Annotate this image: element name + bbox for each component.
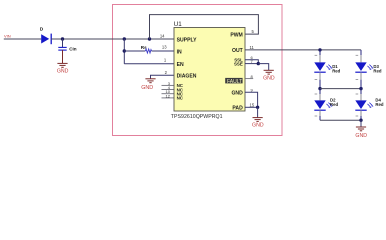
svg-text:OUT: OUT [232,48,244,54]
node junction left LED string [318,48,321,51]
svg-text:DIAGEN: DIAGEN [177,74,197,80]
node junction mid rung left [318,87,321,90]
svg-text:EN: EN [177,62,184,68]
svg-text:GND: GND [252,122,264,128]
wire left string top [319,50,321,55]
wire VIN to diode [4,38,41,40]
svg-text:SSE: SSE [234,62,243,67]
pin mark [315,93,318,95]
LED D2 [314,98,338,111]
schematic boundary box [113,5,283,136]
node junction SSL/SSE [257,62,260,65]
wire Rs to IN pin [152,50,174,52]
pin mark [356,54,359,56]
wire GND pin down [245,92,258,107]
node junction top loop tap [148,37,151,40]
wire OUT to LED strings [245,49,361,51]
ground at LED strings [355,127,367,139]
svg-text:TPS92610QPWPRQ1: TPS92610QPWPRQ1 [171,114,223,120]
node junction at Cin tap [61,37,64,40]
wire rung to D2 [319,89,321,94]
svg-text:D: D [40,27,44,33]
ground under Cin [57,63,69,74]
LED D3 [355,62,382,73]
ground at DIAGEN [141,75,174,91]
svg-text:GND: GND [57,69,69,75]
pin mark [356,79,359,81]
wire vertical branch [123,39,125,64]
svg-text:GND: GND [231,90,243,96]
node junction Rs tap [123,49,126,52]
wire D4 to bottom rung [360,110,362,116]
op-amp U1 IC body [174,21,245,111]
svg-text:12: 12 [166,93,171,98]
ground at SSL/SSE [263,70,275,81]
svg-text:15: 15 [250,102,255,107]
svg-text:GND: GND [141,85,153,91]
resistor Rs [141,45,152,53]
svg-text:GND: GND [355,133,367,139]
svg-text:11: 11 [250,45,255,50]
wire top loop SUPPLY to PWM [150,15,259,39]
wire D2 to bottom rung [319,110,321,116]
ground at PAD [252,118,264,129]
wire D3 to rung [360,72,362,79]
pin mark [315,79,318,81]
LED D4 [355,98,384,111]
wire diode to SUPPLY pin [51,38,174,40]
FAULT pin highlighted [225,78,242,85]
diode D [40,27,51,45]
svg-text:IN: IN [177,49,182,55]
IC right pin names [230,32,243,54]
svg-text:Red: Red [375,102,383,107]
wire SSL to SSE join [245,60,258,64]
NC pin stubs [162,85,175,98]
pin mark [315,54,318,56]
svg-text:FAULT: FAULT [227,79,242,85]
wire rung to D4 [360,89,362,94]
svg-text:Red: Red [332,68,340,73]
svg-text:U1: U1 [174,21,182,28]
FAULT pin stub [245,78,253,80]
wire SSE pin [245,63,258,65]
node junction branch to Rs/EN [123,37,126,40]
wire PAD pin [245,106,258,108]
pin mark [356,93,359,95]
svg-text:14: 14 [160,34,165,39]
svg-text:GND: GND [263,76,275,82]
wire to ground [258,64,268,71]
svg-text:Red: Red [373,68,381,73]
svg-text:PWM: PWM [230,32,242,38]
svg-text:Red: Red [330,102,338,107]
svg-text:SUPPLY: SUPPLY [177,37,198,43]
wire Cin to ground [62,50,64,63]
node junction GND/PAD [256,106,259,109]
wire mid rung [320,88,361,90]
wire D1 to rung [319,72,321,79]
wire bottom rung [320,119,361,121]
wire down to Cin [62,39,64,47]
svg-text:PAD: PAD [232,106,243,112]
wire to EN pin [124,63,174,65]
wire to Rs [124,50,145,52]
node junction bottom rung [359,119,362,122]
svg-text:VIN: VIN [4,34,11,39]
wire to LED ground [360,120,362,127]
node junction mid rung right [359,87,362,90]
svg-text:NC: NC [177,96,184,101]
svg-text:Cin: Cin [69,47,77,52]
wire to ground [257,107,259,117]
svg-text:13: 13 [162,45,167,50]
IC left pin names [177,37,198,79]
LED D1 [314,62,340,73]
pin mark [356,115,359,117]
pin mark [315,115,318,117]
wire right string top [360,50,362,55]
capacitor Cin [58,47,76,52]
